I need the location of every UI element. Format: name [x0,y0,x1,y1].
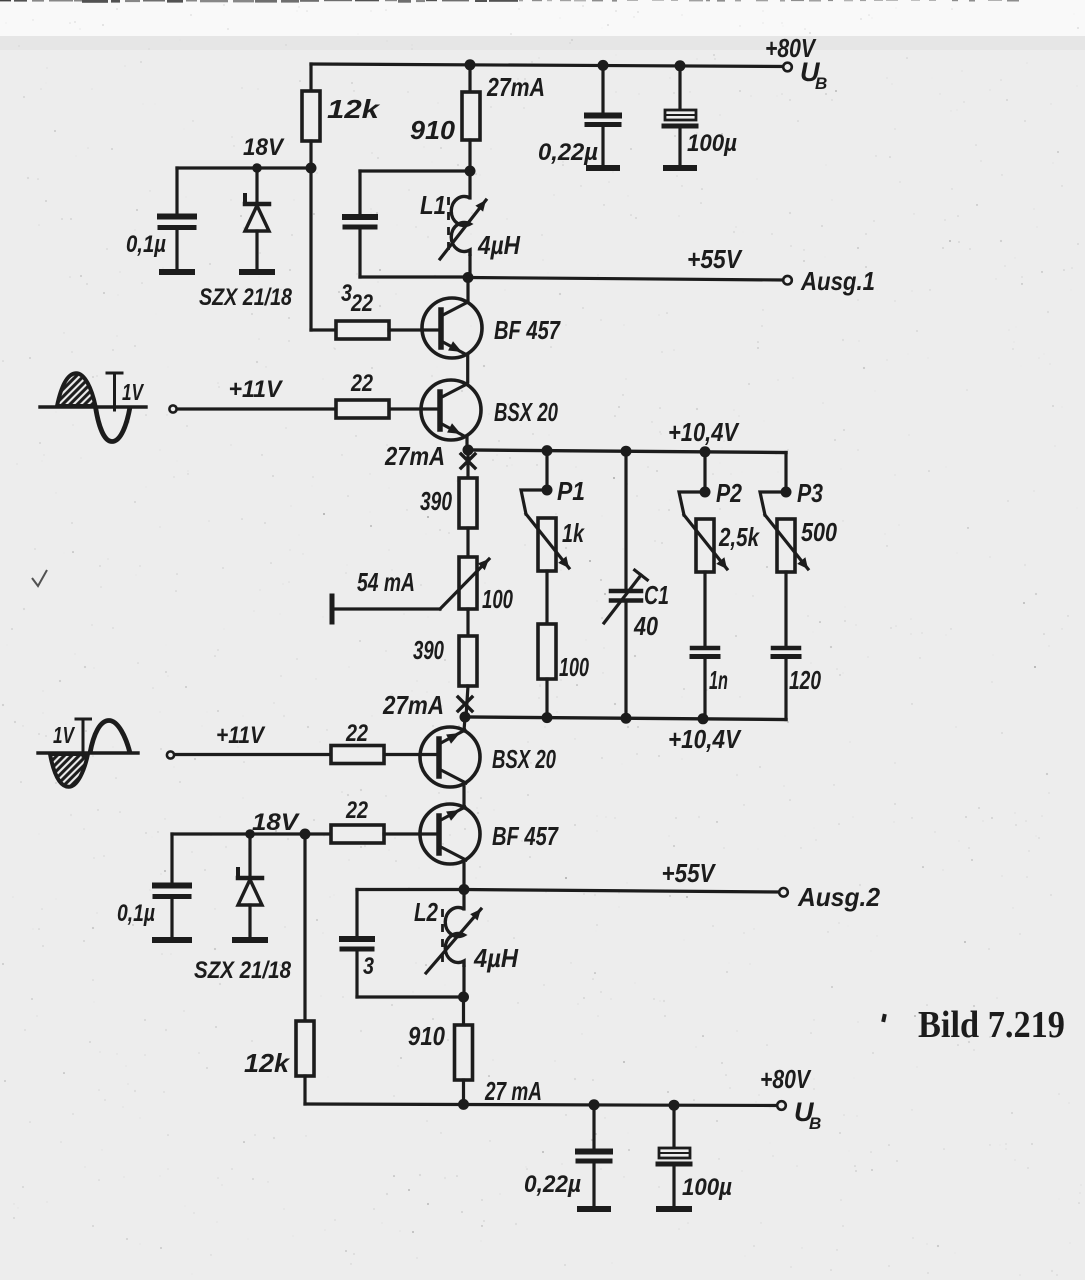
label 27mA top [486,72,545,102]
svg-text:P3: P3 [797,478,823,508]
node junction L2 bottom [458,992,469,1003]
svg-text:0,22µ: 0,22µ [524,1171,581,1198]
node junction 910 bottom [458,1099,469,1110]
resistor 390 lower [459,636,477,717]
svg-text:27 mA: 27 mA [484,1076,542,1106]
label 1V bottom [53,722,75,748]
resistor 22 base BF457 top [311,321,441,339]
svg-text:100: 100 [482,584,513,614]
svg-text:BF 457: BF 457 [492,821,559,851]
potentiometer P2 [679,452,727,645]
svg-text:12k: 12k [244,1048,291,1078]
label 22 BF457 top [350,290,373,317]
svg-text:27mA: 27mA [382,690,444,720]
diode SZX21/18 bottom [235,834,265,940]
transistor BSX20 top [421,380,481,450]
label 390 lower [413,635,444,665]
svg-text:+11V: +11V [229,376,284,403]
label L2 [414,897,438,927]
svg-text:27mA: 27mA [486,72,545,102]
svg-text:B: B [815,74,827,93]
node P1 rail bottom [542,712,553,723]
label 120 [789,665,821,695]
resistor 910 top [462,65,480,171]
source sine top [40,373,146,442]
label +80V top [765,33,817,63]
label 390 upper [420,486,452,516]
label L1 [420,190,446,220]
label 100u top [687,130,737,157]
label 4uH bottom [473,943,519,973]
potentiometer P1 [521,451,569,624]
capacitor 0.1u bottom [155,834,189,940]
svg-text:+10,4V: +10,4V [668,417,740,447]
svg-text:L2: L2 [414,897,438,927]
label UB top [800,57,827,93]
svg-text:2,5k: 2,5k [718,522,760,552]
diode SZX21/18 top [242,168,272,272]
label 1V top [122,379,144,405]
inductor L2 [426,890,481,998]
label 3 bottom [363,953,375,980]
terminal Ausg1 [783,276,792,285]
resistor 390 upper [459,450,477,557]
svg-text:18V: 18V [243,134,285,161]
wire input +11V top [177,407,440,410]
node junction 100u top [675,60,686,71]
svg-text:Ausg.2: Ausg.2 [797,882,880,912]
label C1 [644,580,669,610]
svg-text:390: 390 [420,486,452,516]
label 27mA mid-bottom [382,690,444,720]
svg-text:12k: 12k [327,94,381,124]
label 3 top [341,280,353,307]
svg-text:100: 100 [559,652,589,682]
potentiometer P3 [760,453,808,646]
source sine bottom [38,719,138,787]
resistor 22 base BSX20 bottom [331,746,384,764]
inductor L1 [440,171,486,277]
wire +10.4V bottom rail [465,717,786,720]
transistor BF457 bottom [420,804,480,889]
svg-text:Ausg.1: Ausg.1 [800,266,875,296]
node junction 910 top [465,59,476,70]
wire +80V bottom rail [305,1104,777,1106]
label 1k [562,518,585,548]
label 2.5k [718,522,760,552]
label 22 BF457 bottom [345,797,368,824]
svg-text:3: 3 [363,953,375,980]
label 40 [633,611,658,641]
svg-text:BF 457: BF 457 [494,315,561,345]
resistor 12k top [302,91,320,168]
node junction 100u bottom [669,1100,680,1111]
node emitter junction mid-bottom [460,712,471,723]
label 100 variable [482,584,513,614]
label Ausg.2 [797,882,880,912]
svg-text:0,1µ: 0,1µ [126,231,166,258]
label +11V top [229,376,284,403]
label BSX20 top [494,397,558,427]
node junction L1 top [465,166,476,177]
svg-text:22: 22 [345,720,368,747]
node junction 0.22u bottom [589,1099,600,1110]
node emitter junction mid-top [463,445,474,456]
label 18V top [243,134,285,161]
capacitor 0.1u top [160,168,194,272]
label 4uH top [477,230,521,260]
label +10.4V bottom [668,724,742,754]
svg-text:22: 22 [345,797,368,824]
node junction 0.22u top [598,60,609,71]
resistor 12k bottom [296,1021,314,1104]
node 18V junction top [306,163,317,174]
capacitor 1n [692,648,718,719]
capacitor C1 variable [604,451,647,718]
node zener junction top [252,163,262,173]
resistor 100 variable 54mA [332,557,489,636]
capacitor 100u top [664,66,696,168]
node 1n rail bottom [698,713,709,724]
capacitor 120 [773,648,799,720]
svg-text:B: B [809,1114,821,1133]
svg-text:910: 910 [408,1021,445,1051]
resistor 910 bottom [455,997,473,1104]
label +11V bottom [216,722,266,749]
node zener junction bottom [245,829,255,839]
resistor 22 base BSX20 top [336,400,389,418]
capacitor 0.22u bottom [578,1105,610,1209]
label 0.22u bottom [524,1171,581,1198]
label 910 bottom [408,1021,445,1051]
label BF457 top [494,315,561,345]
svg-text:910: 910 [410,115,456,145]
capacitor 3 bottom [342,890,464,998]
label 0.1u bottom [117,900,155,927]
label 500 [801,517,837,547]
wire +10.4V top rail [468,450,786,453]
label BF457 bottom [492,821,559,851]
svg-text:BSX 20: BSX 20 [494,397,558,427]
svg-text:500: 500 [801,517,837,547]
mark X top [461,454,475,468]
label +55V bottom [662,858,717,888]
svg-text:390: 390 [413,635,444,665]
terminal input top [169,405,176,412]
label BSX20 bottom [492,744,556,774]
terminal input bottom [167,751,174,758]
capacitor 3 top [345,171,466,277]
wire 18V node top [177,168,311,330]
svg-text:+10,4V: +10,4V [668,724,742,754]
label Ausg.1 [800,266,875,296]
label 0.1u top [126,231,166,258]
label 27mA mid-top [384,441,445,471]
svg-text:SZX 21/18: SZX 21/18 [199,284,293,311]
transistor BSX20 bottom [420,717,480,808]
svg-text:4µH: 4µH [473,943,519,973]
wire input +11V bottom [175,753,439,756]
wire rail to 12k corner [309,64,312,91]
label +10.4V top [668,417,740,447]
svg-text:0,22µ: 0,22µ [538,139,598,166]
node 18V junction bottom [300,829,311,840]
node junction emitter BF457 bottom [459,884,470,895]
svg-text:22: 22 [350,370,373,397]
label 12k top [327,94,381,124]
svg-text:54 mA: 54 mA [357,567,415,597]
node junction emitter BF457 top [463,272,474,283]
svg-text:1V: 1V [122,379,144,405]
svg-text:27mA: 27mA [384,441,445,471]
svg-text:40: 40 [633,611,658,641]
svg-text:0,1µ: 0,1µ [117,900,155,927]
label 22 BSX20 bottom [345,720,368,747]
label P1 [557,476,585,506]
label 910 top [410,115,456,145]
resistor 100 under P1 [538,624,556,718]
node C1 rail bottom [621,713,632,724]
label 18V bottom [252,809,300,836]
svg-text:120: 120 [789,665,821,695]
svg-text:1V: 1V [53,722,75,748]
label 27mA bottom [484,1076,542,1106]
label 1n [709,665,728,695]
node C1 rail top [621,446,632,457]
terminal Ausg2 [779,888,788,897]
svg-text:BSX 20: BSX 20 [492,744,556,774]
label 100 under P1 [559,652,589,682]
svg-text:SZX 21/18: SZX 21/18 [194,957,292,984]
terminal UB bottom [777,1101,786,1110]
wire 18V node bottom [172,834,305,1021]
svg-text:1k: 1k [562,518,585,548]
wire +80V top rail [311,64,786,67]
label 22 BSX20 top [350,370,373,397]
wire +55V Ausg2 [464,890,779,893]
wire +55V Ausg1 [468,278,783,281]
svg-text:P1: P1 [557,476,585,506]
svg-text:+11V: +11V [216,722,266,749]
label +80V bottom [760,1064,812,1094]
label 100u bottom [682,1174,732,1201]
label SZX21/18 bottom [194,957,292,984]
mark X bottom [458,697,472,711]
node P2 rail top [700,446,711,457]
terminal UB top [783,63,792,72]
svg-text:4µH: 4µH [477,230,521,260]
label UB bottom [794,1097,821,1133]
caption Bild 7.219 [881,1004,1065,1046]
capacitor 0.22u top [587,65,619,168]
svg-text:Bild 7.219: Bild 7.219 [918,1004,1065,1046]
label 12k bottom [244,1048,291,1078]
label P2 [716,478,742,508]
label 0.22u top [538,139,598,166]
svg-text:P2: P2 [716,478,742,508]
resistor 22 base BF457 bottom [305,825,439,843]
svg-text:+80V: +80V [760,1064,812,1094]
label SZX21/18 top [199,284,293,311]
label +55V top [687,244,743,274]
svg-text:L1: L1 [420,190,446,220]
svg-text:100µ: 100µ [682,1174,732,1201]
svg-text:+55V: +55V [687,244,743,274]
capacitor 100u bottom [658,1105,690,1209]
svg-text:C1: C1 [644,580,669,610]
svg-text:18V: 18V [252,809,300,836]
label P3 [797,478,823,508]
transistor BF457 top [422,278,482,383]
svg-text:22: 22 [350,290,373,317]
label 54mA [357,567,415,597]
svg-text:+55V: +55V [662,858,717,888]
svg-text:1n: 1n [709,665,728,695]
node P1 rail top [542,445,553,456]
svg-text:100µ: 100µ [687,130,737,157]
